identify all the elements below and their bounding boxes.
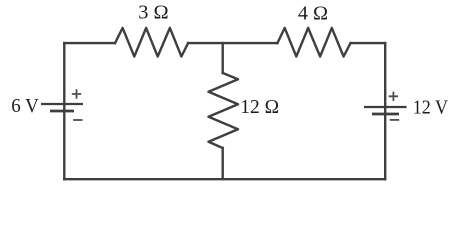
battery V2 short negative plate — [372, 113, 399, 116]
wire: top-right horizontal segment — [351, 42, 386, 44]
battery V1 6V plates — [41, 104, 83, 111]
resistor R2 4 ohm zigzag — [277, 28, 350, 57]
svg-text:4 Ω: 4 Ω — [298, 4, 328, 25]
resistor R3 12 ohm vertical zigzag — [209, 73, 239, 148]
resistor R1 3 ohm zigzag — [115, 28, 188, 57]
wire: top-middle horizontal segment — [188, 42, 277, 44]
battery V1 short negative plate — [50, 110, 74, 113]
wire: middle branch top stub — [221, 43, 223, 73]
battery V1 long positive plate — [41, 103, 83, 105]
svg-text:12 Ω: 12 Ω — [240, 97, 279, 118]
wire: left vertical branch — [63, 43, 65, 179]
svg-text:12 V: 12 V — [413, 98, 448, 119]
battery V2 long positive plate — [364, 106, 407, 108]
wire: right vertical branch — [384, 43, 386, 179]
polarity minus of V1 — [73, 119, 82, 121]
svg-text:3 Ω: 3 Ω — [138, 3, 168, 24]
polarity plus of V1 — [72, 89, 81, 98]
svg-text:6 V: 6 V — [11, 96, 39, 117]
polarity plus of V2 — [389, 92, 398, 101]
wire: bottom horizontal — [64, 178, 385, 180]
wire: middle branch bottom stub — [221, 148, 223, 179]
polarity minus of V2 — [390, 119, 399, 121]
battery V2 12V plates — [364, 107, 407, 114]
wire: top-left horizontal segment — [64, 42, 115, 44]
